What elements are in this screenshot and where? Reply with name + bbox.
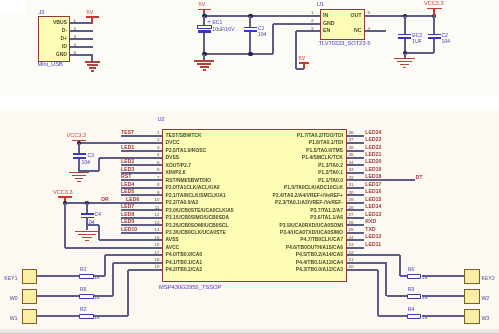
J3 pin number 4 (74, 42, 77, 48)
U2 right pin number 28 (349, 205, 354, 211)
U2 left pin number 1 (157, 130, 160, 136)
U2 pin name P3.4/UCA0TXD/UCA0SIMO (280, 230, 343, 236)
U2 pin name P4.2/TB0.2/CA2 (166, 267, 203, 273)
U2 left pin number 7 (157, 175, 160, 181)
wire EC2 C2 bottoms (405, 52, 434, 54)
U2 left pin number 4 (157, 152, 160, 158)
wire P4.4 to R3 (347, 262, 387, 264)
wire DR net (65, 202, 162, 204)
U2 pin name P1.3/TA0.2 (318, 163, 343, 169)
net label LED23 (365, 137, 381, 143)
wire stub pin 37 (347, 142, 364, 144)
U2 right pin number 35 (349, 152, 354, 158)
resistor R4 (407, 314, 422, 320)
U2 pin name P3.3/UCB0CLK/UCA0STE (166, 230, 226, 236)
junction EC1 bottom (202, 52, 206, 56)
U1 value TLV70233_SOT23-5 (319, 41, 371, 48)
net label LED8 (121, 212, 134, 218)
wire stub pin 11 (121, 209, 162, 211)
U2 pin name AVCC (166, 245, 180, 251)
capacitor C4 (86, 203, 88, 213)
U2 pin name RST/NMI/SBWTDIO (166, 178, 212, 184)
wire stub pin 31 (347, 187, 364, 189)
net label TEST (121, 130, 134, 136)
wire stub pin 28 (347, 209, 364, 211)
net label LED14 (365, 204, 381, 210)
U1 pin name NC (354, 28, 362, 34)
net label LED5 (121, 189, 134, 195)
capacitor C3 (78, 143, 80, 153)
wire R3 to W2 (422, 295, 465, 297)
net label LED4 (121, 182, 134, 188)
net label RST (121, 174, 131, 180)
U2 pin name AVSS (166, 237, 179, 243)
wire stub pin 12 (121, 217, 162, 219)
wire stub pin 3 (121, 150, 162, 152)
U2 right pin number 32 (349, 175, 354, 181)
U2 left pin number 18 (154, 257, 159, 263)
U2 left pin number 17 (154, 250, 159, 256)
J3 pin name GND (56, 52, 67, 58)
J3 pin number 3 (74, 34, 77, 40)
junction at C1 top (248, 14, 252, 18)
resistor R1 (79, 274, 94, 280)
MCU U2 designator (158, 117, 165, 124)
U2 right pin number 30 (349, 190, 354, 196)
J3 pin 5 wire (70, 54, 93, 56)
U2 pin name P2.5/TA1.0/ROSC (166, 148, 207, 154)
wire R4 to W3 (422, 315, 465, 317)
net label LED2 (121, 159, 134, 165)
net label LED19 (365, 167, 381, 173)
net label LED7 (121, 204, 134, 210)
U2 left pin number 13 (154, 220, 159, 226)
U2 pin name P3.5/UCA0RXD/UCA0SOMI (279, 223, 343, 229)
wire ground rail (204, 53, 272, 55)
net label LED10 (121, 227, 137, 233)
U2 left pin number 15 (154, 235, 159, 241)
U2 right pin number 20 (349, 264, 354, 270)
regulator U1 designator (317, 2, 324, 9)
resistor R3 (407, 294, 422, 300)
ground at J3 (85, 61, 100, 62)
wire P4.3 to R4 (347, 269, 379, 271)
wire stub pin 30 (347, 194, 364, 196)
U1 pin number 1 (311, 10, 314, 16)
connector J3 body (38, 16, 70, 62)
resistor R5 (79, 294, 94, 300)
U2 pin name DVCC (166, 140, 180, 146)
U2 left pin number 8 (157, 182, 160, 188)
U1 NC stub (365, 30, 387, 32)
junction DVCC (77, 141, 81, 145)
U2 left pin number 14 (154, 227, 159, 233)
U2 left pin number 3 (157, 145, 160, 151)
wire stub pin 23 (347, 247, 364, 249)
capacitor EC1 (203, 16, 205, 25)
U2 right pin number 27 (349, 212, 354, 218)
U2 pin name P3.2/UCB0SOMI/UCB0SCL (166, 223, 229, 229)
U2 value MSP430G2955_TSSOP (159, 285, 222, 292)
wire P4.5 to R6 (347, 254, 401, 256)
wire stub pin 13 (121, 224, 162, 226)
U2 pin name P2.0/TA1CLK/ACLK/A0 (166, 185, 220, 191)
junction EC2 top (403, 14, 407, 18)
wire stub pin 34 (347, 164, 364, 166)
wire stub pin 38 (347, 135, 364, 137)
wire stub pin 33 (347, 172, 364, 174)
U2 pin name P2.1/TAINCLK/SMCLK/A1 (166, 193, 226, 199)
ground at regulator (394, 58, 415, 59)
capacitor EC2 (404, 16, 406, 34)
U2 pin name TEST/SBWTCK (166, 133, 202, 139)
junction C2 top (432, 14, 436, 18)
wire R6 to KEY2 (422, 275, 465, 277)
U2 pin name P4.3/TB0.0/A12/CA3 (296, 267, 343, 273)
J3 pin 2 wire (70, 30, 93, 32)
MCU U2 body (162, 129, 347, 282)
U2 right pin number 37 (349, 137, 354, 143)
net label LED3 (121, 167, 134, 173)
wire W0 to R5 (37, 295, 79, 297)
J3 pin 4 wire (70, 46, 93, 48)
capacitor C1 (249, 16, 251, 27)
wire stub pin 5 (121, 164, 162, 166)
power 5V at EN (299, 56, 306, 63)
U2 pin name P1.1/TA0.0 (318, 178, 343, 184)
connector J W1 (22, 309, 38, 324)
net label LED11 (365, 242, 381, 248)
U1 pin number 2 (311, 18, 314, 24)
U2 pin name DVSS (166, 155, 180, 161)
U1 pin number 4 (368, 26, 371, 32)
wire R5 to P4.1 (94, 295, 114, 297)
U1 pin number 5 (368, 10, 371, 16)
wire stub pin 25 (347, 232, 364, 234)
U2 pin name P4.5/TB0.2/A14/CA5 (296, 252, 343, 258)
connector J3 designator (39, 10, 45, 17)
U2 pin name P1.0/TA0CLK/ADC10CLK (284, 185, 343, 191)
power VCC3.3 at DVCC (67, 133, 87, 140)
U2 right pin number 33 (349, 167, 354, 173)
connector J KEY1 (22, 269, 38, 284)
net label TXD (365, 227, 375, 233)
U2 left pin number 19 (154, 264, 159, 270)
net label DR (101, 197, 109, 203)
U2 right pin number 31 (349, 182, 354, 188)
net label LED1 (121, 145, 134, 151)
connector J3 value Mini_USB (38, 62, 63, 69)
U2 right pin number 24 (349, 235, 354, 241)
J3 pin name D+ (60, 36, 67, 42)
J3 pin name VBUS (53, 20, 67, 26)
net label LED21 (365, 152, 381, 158)
U2 left pin number 12 (154, 212, 159, 218)
U2 pin name P4.6/TB0OUTH/A15/CA6 (286, 245, 343, 251)
wire stub pin 9 (121, 194, 162, 196)
wire 5V stem (203, 10, 205, 16)
power 5V at J3 (87, 10, 94, 17)
U2 pin name P4.0/TB0.0/CA0 (166, 252, 203, 258)
background top-left white corner (0, 0, 26, 14)
U2 pin name P2.3/TA0.1/A3/VREF-/VeREF- (275, 200, 343, 206)
wire 5V rail to U1 IN (204, 15, 320, 17)
wire U1 OUT (365, 15, 435, 17)
net label LED24 (365, 130, 381, 136)
U2 pin name P4.7/TB0CLK/CA7 (300, 237, 343, 243)
U2 right pin number 34 (349, 160, 354, 166)
bottom edge band (0, 329, 499, 333)
J3 pin number 2 (74, 26, 77, 32)
resistor R6 (407, 274, 422, 280)
wire stub pin 26 (347, 224, 364, 226)
wire stub pin 24 (347, 239, 364, 241)
wire stub pin 36 (347, 150, 364, 152)
regulator U1 body (320, 9, 365, 40)
net label LED16 (365, 189, 381, 195)
U2 pin name XOUT/P2.7 (166, 163, 192, 169)
U2 pin name P2.4/TA0.2/A4/VREF+/VeREF+ (273, 193, 344, 199)
junction at 5V rail (202, 14, 206, 18)
net label LED13 (365, 212, 381, 218)
J3 pin 3 wire (70, 38, 93, 40)
wire DVSS to ground (99, 157, 162, 159)
net label LED6 (126, 197, 139, 203)
U2 left pin number 16 (154, 242, 159, 248)
background white seam (0, 95, 499, 111)
U2 pin name P4.1/TB0.1/CA1 (166, 260, 203, 266)
wire stub pin 6 (121, 172, 162, 174)
wire stub pin 14 (121, 232, 162, 234)
ground at input rail (194, 60, 214, 61)
wire U1 GND return (272, 24, 274, 54)
wire stub pin 1 (121, 135, 162, 137)
U2 right pin number 38 (349, 130, 354, 136)
wire KEY1 to R1 (37, 275, 79, 277)
wire stub pin 7 (121, 179, 162, 181)
U1 pin name EN (323, 28, 330, 34)
U2 right pin number 25 (349, 227, 354, 233)
U2 right pin number 29 (349, 197, 354, 203)
wire DVCC (79, 142, 162, 144)
U2 left pin number 9 (157, 190, 160, 196)
U1 pin name GND (323, 21, 335, 27)
wire AVSS to ground (99, 239, 162, 241)
net label LED9 (121, 219, 134, 225)
U2 left pin number 6 (157, 167, 160, 173)
U2 pin name P2.2/TA0.0/A2 (166, 200, 199, 206)
connector J W3 (464, 309, 480, 324)
wire R2 to P4.2 (94, 315, 129, 317)
power VCC3.3 at P2.2 (53, 190, 73, 197)
U1 pin name OUT (351, 13, 362, 19)
connector J W2 (464, 289, 480, 304)
net label LED12 (365, 234, 381, 240)
wire stub pin 8 (121, 187, 162, 189)
U2 pin name P1.4/SMCLK/TCK (302, 155, 343, 161)
U2 left pin number 2 (157, 137, 160, 143)
power VCC3.3 output (424, 1, 444, 8)
connector J W0 (22, 289, 38, 304)
U2 pin name XIN/P2.6 (166, 170, 186, 176)
power 5V rail (199, 2, 206, 9)
wire stub pin 32 (347, 179, 416, 181)
capacitor C2 (433, 16, 435, 34)
J3 pin name D- (62, 28, 67, 34)
ground at C4 (75, 231, 100, 232)
wire 5V stub to EN (303, 64, 305, 70)
background upper light band (0, 0, 499, 95)
U2 pin name P3.7/TA1.2/A7 (310, 208, 343, 214)
wire ground stem U1 (404, 53, 406, 58)
wire AVCC to VCC3.3 (64, 203, 66, 248)
junction EC2 bottom (403, 51, 407, 55)
net label LED17 (365, 182, 381, 188)
U1 pin name IN (323, 13, 328, 19)
junction C1 bottom (248, 52, 252, 56)
U2 right pin number 23 (349, 242, 354, 248)
junction VCC3.3 branch (63, 201, 67, 205)
U2 pin name P1.2/TA0.1 (318, 170, 343, 176)
U2 right pin number 26 (349, 220, 354, 226)
wire W1 to R2 (37, 315, 79, 317)
wire stub pin 35 (347, 157, 364, 159)
U2 pin name P1.7/TA0.2/TDO/TDI (297, 133, 343, 139)
U2 pin name P3.0/UCB0STE/UCA0CLK/A5 (166, 208, 234, 214)
resistor R2 (79, 314, 94, 320)
U2 pin name P3.6/TA1.1/A6 (310, 215, 343, 221)
U2 pin name P3.1/UCB0SIMO/UCB0SDA (166, 215, 230, 221)
J3 pin 1 wire (70, 22, 93, 24)
wire stub pin 29 (347, 202, 364, 204)
U1 pin number 3 (311, 26, 314, 32)
net label DT (416, 175, 423, 181)
U2 left pin number 5 (157, 160, 160, 166)
U2 left pin number 10 (154, 197, 159, 203)
ground at C3 (69, 172, 90, 173)
U2 pin name P1.6/TA0.1/TDI (309, 140, 343, 146)
net label RXD (365, 219, 376, 225)
wire ground stem (203, 54, 205, 60)
junction C4 top (85, 201, 89, 205)
wire GND pin down (91, 55, 93, 61)
U2 right pin number 21 (349, 257, 354, 263)
U2 pin name P1.5/TA0.0/TMS (306, 148, 343, 154)
net label LED15 (365, 197, 381, 203)
wire 5V to VBUS (91, 18, 93, 23)
wire stub pin 27 (347, 217, 364, 219)
net label LED18 (365, 174, 381, 180)
net label LED20 (365, 159, 381, 165)
J3 pin number 5 (74, 50, 77, 56)
wire EN pin (296, 30, 320, 32)
wire R1 to P4.0 (94, 275, 105, 277)
U2 right pin number 36 (349, 145, 354, 151)
U2 right pin number 22 (349, 250, 354, 256)
J3 pin number 1 (74, 18, 77, 24)
net label LED22 (365, 145, 381, 151)
J3 pin name ID (62, 44, 67, 50)
connector J KEY2 (464, 269, 480, 284)
U2 pin name P4.4/TB0.1/A13/CA4 (296, 260, 343, 266)
U2 left pin number 11 (155, 205, 160, 211)
